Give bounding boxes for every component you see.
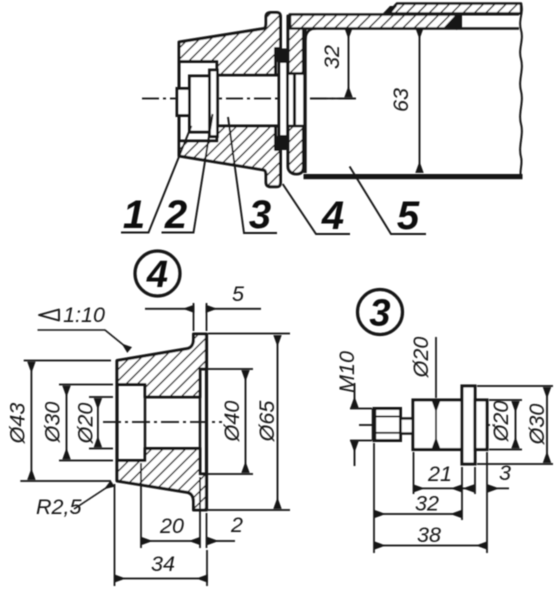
svg-text:Ø40: Ø40 xyxy=(220,401,244,443)
centerline assembly xyxy=(142,98,356,100)
svg-text:Ø30: Ø30 xyxy=(41,402,65,444)
dim d20 body xyxy=(435,337,437,398)
pin neck xyxy=(401,419,414,434)
svg-text:4: 4 xyxy=(321,194,344,238)
dim d20 right stub xyxy=(489,400,522,450)
svg-text:5: 5 xyxy=(232,282,245,306)
svg-text:21: 21 xyxy=(427,462,452,486)
bushing detail lower half xyxy=(117,449,207,511)
weld blob at top wall end xyxy=(443,15,462,29)
svg-text:Ø20: Ø20 xyxy=(74,403,98,445)
pin 3 flange in assembly xyxy=(279,62,288,137)
tube inner corner fillet xyxy=(306,29,317,41)
leader 4 xyxy=(283,184,350,234)
dim d43 xyxy=(20,361,111,482)
wall right edge thick xyxy=(303,16,306,173)
leader 3 xyxy=(228,117,277,233)
dim 2 (recess depth) xyxy=(206,513,208,548)
svg-text:20: 20 xyxy=(159,514,184,538)
svg-text:4: 4 xyxy=(146,254,168,296)
taper 1:10 symbol and leader xyxy=(39,310,59,321)
pin stub right face xyxy=(293,74,296,127)
dim d20 detail4 xyxy=(89,397,113,449)
svg-text:63: 63 xyxy=(389,88,413,112)
svg-text:1:10: 1:10 xyxy=(63,303,105,327)
outer liner tube on top xyxy=(388,4,521,14)
svg-text:Ø20: Ø20 xyxy=(409,337,433,379)
pin thread stub M10 xyxy=(374,409,401,441)
svg-text:32: 32 xyxy=(320,45,344,69)
dim 34 xyxy=(115,484,208,586)
dim 5 (flange width) xyxy=(194,303,207,331)
svg-text:Ø65: Ø65 xyxy=(255,400,279,443)
nut 1 xyxy=(190,76,210,132)
pin flange xyxy=(462,386,475,464)
svg-text:1: 1 xyxy=(123,193,145,237)
bushing detail upper half xyxy=(117,334,207,397)
dim 20 (bore length) xyxy=(141,463,200,548)
svg-text:2: 2 xyxy=(164,193,187,237)
bushing 4 upper sectioned half xyxy=(179,13,281,76)
circled 4 xyxy=(135,251,180,296)
bushing left face xyxy=(178,44,181,153)
detail4 centerline xyxy=(103,421,222,423)
svg-text:38: 38 xyxy=(417,523,441,547)
svg-text:34: 34 xyxy=(151,552,175,576)
leader 2 xyxy=(162,114,213,233)
dim d30 flange xyxy=(477,386,553,464)
dim 32 detail3 xyxy=(373,443,375,553)
svg-text:3: 3 xyxy=(369,293,390,335)
pin 3 body in assembly xyxy=(218,75,280,126)
svg-text:M10: M10 xyxy=(335,351,359,393)
bushing 4 lower sectioned half xyxy=(179,126,281,187)
detail4 recess bottom face line xyxy=(199,369,202,474)
detail3 centerline xyxy=(359,424,495,426)
tube end wall plate xyxy=(288,16,304,174)
dim M10 xyxy=(350,409,372,441)
detail4 counterbore end face line xyxy=(144,385,147,461)
svg-text:3: 3 xyxy=(499,461,511,485)
tube top wall unsectioned continuation xyxy=(456,14,519,28)
svg-text:Ø20: Ø20 xyxy=(489,401,513,443)
junction blob bottom xyxy=(277,136,289,150)
dim 32 xyxy=(310,98,356,100)
liner left weld step xyxy=(382,6,397,15)
leader 5 xyxy=(350,167,426,235)
dim d30 detail4 xyxy=(59,385,113,461)
svg-text:5: 5 xyxy=(397,194,420,238)
pin body xyxy=(413,400,462,450)
tube 5 bottom wall xyxy=(304,174,523,179)
pin right stub xyxy=(475,400,487,450)
svg-text:Ø30: Ø30 xyxy=(525,404,549,446)
dim 3 xyxy=(475,452,487,553)
dim d40 xyxy=(203,369,253,474)
dim 63 xyxy=(419,29,421,172)
svg-text:32: 32 xyxy=(415,492,439,516)
detail4 flange right face thick xyxy=(205,334,208,510)
svg-text:2: 2 xyxy=(230,513,243,537)
svg-text:Ø43: Ø43 xyxy=(6,403,30,445)
hole in wall / pin stub 3 end xyxy=(288,74,305,127)
tube break line right xyxy=(520,4,522,179)
dim d65 xyxy=(208,334,290,511)
svg-text:3: 3 xyxy=(249,193,271,237)
circled 3 xyxy=(358,290,403,335)
svg-text:R2,5: R2,5 xyxy=(36,495,82,519)
leader 1 xyxy=(121,126,191,233)
washer 2 xyxy=(210,70,218,137)
dim 21 xyxy=(414,452,463,520)
dim 38 xyxy=(375,545,487,547)
tube 5 top wall xyxy=(290,15,456,29)
junction blob top xyxy=(277,49,289,63)
detail4 left face thick xyxy=(115,361,118,482)
thread stub of pin (M10 end) xyxy=(177,89,190,116)
